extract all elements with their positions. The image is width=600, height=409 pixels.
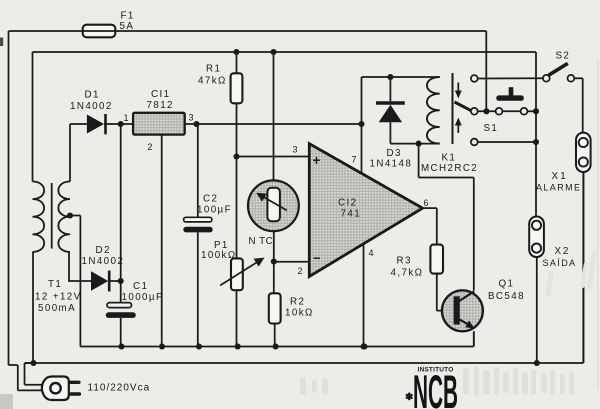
svg-text:4,7kΩ: 4,7kΩ <box>391 268 424 279</box>
svg-text:12 +12V: 12 +12V <box>35 292 82 303</box>
svg-text:X2: X2 <box>555 246 571 257</box>
svg-text:NCB: NCB <box>413 365 458 409</box>
svg-text:1N4148: 1N4148 <box>370 159 413 170</box>
svg-text:✽: ✽ <box>405 392 415 403</box>
svg-text:1N4002: 1N4002 <box>70 101 113 112</box>
svg-text:C1: C1 <box>133 281 148 292</box>
svg-text:100µF: 100µF <box>197 205 232 216</box>
svg-text:2: 2 <box>298 266 304 276</box>
svg-text:5A: 5A <box>120 21 135 32</box>
svg-text:1: 1 <box>124 113 130 123</box>
svg-text:R3: R3 <box>397 256 412 267</box>
svg-text:BC548: BC548 <box>488 291 525 302</box>
svg-text:110/220Vca: 110/220Vca <box>88 383 151 394</box>
svg-text:−: − <box>313 251 321 266</box>
svg-text:2: 2 <box>148 142 154 152</box>
svg-text:ALARME: ALARME <box>536 183 581 193</box>
svg-text:500mA: 500mA <box>38 303 76 314</box>
svg-text:K1: K1 <box>442 153 457 164</box>
svg-text:T1: T1 <box>48 279 62 290</box>
svg-text:X1: X1 <box>552 171 568 182</box>
svg-text:7812: 7812 <box>147 100 174 111</box>
svg-text:3: 3 <box>189 113 195 123</box>
svg-text:100kΩ: 100kΩ <box>201 250 237 261</box>
svg-text:S2: S2 <box>556 51 571 62</box>
svg-text:S1: S1 <box>484 123 499 134</box>
svg-text:1N4002: 1N4002 <box>82 256 125 267</box>
svg-text:+: + <box>313 153 321 168</box>
svg-text:R1: R1 <box>206 64 221 75</box>
svg-text:MCH2RC2: MCH2RC2 <box>421 163 478 174</box>
svg-text:10kΩ: 10kΩ <box>285 308 314 319</box>
svg-text:C2: C2 <box>203 194 218 205</box>
svg-text:D3: D3 <box>387 148 402 159</box>
svg-text:D1: D1 <box>85 90 100 101</box>
svg-text:4: 4 <box>369 248 375 258</box>
svg-text:F1: F1 <box>121 11 135 22</box>
svg-text:CI1: CI1 <box>151 89 170 100</box>
svg-text:1000µF: 1000µF <box>122 292 164 303</box>
svg-text:N TC: N TC <box>249 236 274 247</box>
svg-text:SAÍDA: SAÍDA <box>543 258 577 268</box>
svg-text:CI2: CI2 <box>338 198 357 209</box>
svg-text:D2: D2 <box>96 245 111 256</box>
svg-text:Q1: Q1 <box>499 279 515 290</box>
svg-text:741: 741 <box>341 209 362 220</box>
svg-text:47kΩ: 47kΩ <box>198 76 227 87</box>
svg-text:7: 7 <box>352 155 358 165</box>
svg-text:R2: R2 <box>290 297 305 308</box>
svg-text:6: 6 <box>424 198 430 208</box>
svg-text:3: 3 <box>293 145 299 155</box>
